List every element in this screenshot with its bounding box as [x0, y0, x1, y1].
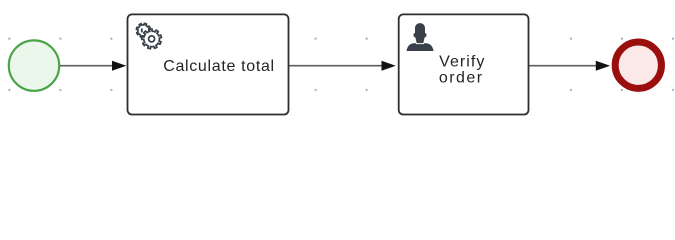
person head	[414, 23, 427, 43]
large gear	[142, 29, 162, 49]
large gear hub	[149, 36, 155, 42]
user task person icon	[407, 23, 434, 51]
person shoulders	[407, 43, 434, 51]
start event	[9, 40, 59, 90]
svg-text:order: order	[439, 70, 484, 87]
grid dots	[8, 38, 674, 92]
arrowhead 3	[596, 61, 610, 71]
service task gear icon	[136, 23, 161, 48]
arrowhead 2	[382, 61, 396, 71]
small gear hub arc	[142, 29, 143, 32]
arrowhead 1	[112, 61, 126, 71]
task Verify order	[399, 14, 529, 114]
wire task2->end	[529, 65, 599, 67]
svg-text:Calculate total: Calculate total	[163, 58, 275, 75]
wire start->task1	[59, 65, 114, 67]
svg-text:Verify: Verify	[439, 54, 485, 71]
person head white halo	[414, 23, 427, 43]
task Calculate total	[128, 14, 289, 114]
wire task1->task2	[289, 65, 385, 67]
small gear	[136, 23, 150, 37]
end event	[615, 42, 661, 88]
